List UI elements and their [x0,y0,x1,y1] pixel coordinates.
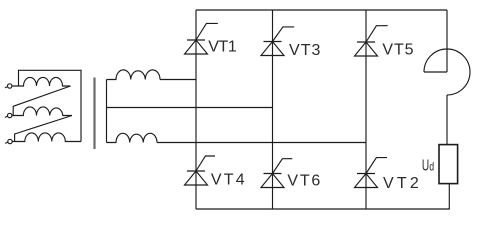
svg-text:d: d [429,159,434,173]
secondary winding c (coil) [107,133,158,142]
thyristor VT3 [261,27,294,56]
svg-text:VT3: VT3 [289,42,320,59]
svg-text:VT2: VT2 [383,175,419,192]
input terminal b [5,113,12,117]
wire (positive rail to smoothing reactor) [446,10,448,72]
transformer core [93,78,95,150]
wire (phase b to leg 2) [107,107,273,109]
svg-text:U: U [422,157,429,174]
wire (phase a to leg 1) [160,79,196,81]
secondary winding a (coil) [107,70,161,80]
input terminal a [5,84,12,88]
primary winding C (coil) [12,133,81,142]
label Ud [422,157,434,174]
svg-text:VT1: VT1 [208,39,237,56]
wire (bridge leg 1) [195,10,197,209]
svg-text:VT5: VT5 [382,41,413,58]
wire (bridge leg 2) [272,10,274,209]
wire [15,116,72,142]
primary winding A (coil) [12,77,71,86]
input terminal c [5,139,12,143]
thyristor VT6 [261,159,292,188]
wire (bridge leg 3) [365,10,367,209]
thyristor VT1 [185,23,218,54]
wire (phase c to leg 3) [157,142,366,144]
primary winding B (coil) [12,107,72,116]
node: positive DC rail [196,9,447,11]
svg-text:VT6: VT6 [287,173,320,190]
thyristor VT2 [355,158,388,188]
node: negative DC rail [196,208,450,210]
wire (delta closing link) [19,70,82,141]
secondary neutral bus [106,80,108,143]
inductor L (smoothing reactor loop) [424,49,470,95]
wire [13,86,70,116]
thyristor VT5 [355,26,388,56]
svg-text:VT4: VT4 [211,171,245,188]
wire (reactor to load resistor) [446,95,448,145]
thyristor VT4 [185,156,216,185]
wire (load resistor to negative rail) [448,184,450,209]
resistor Rd (load) [439,145,458,184]
